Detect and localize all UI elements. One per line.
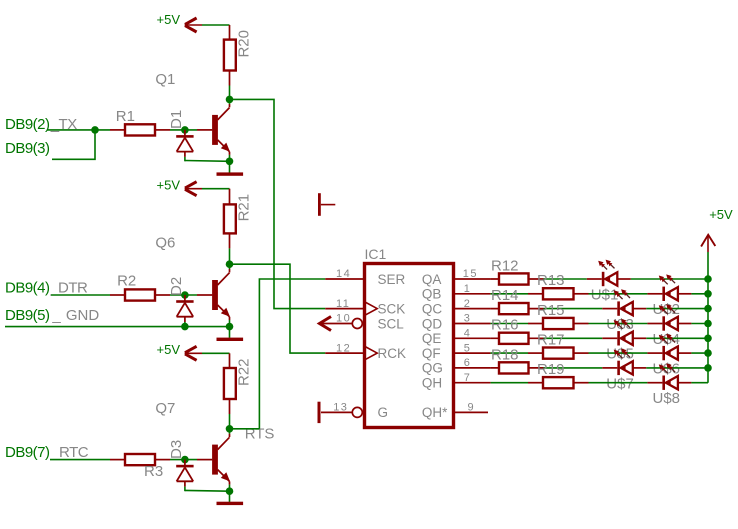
supply +5V arrow (channel Q1) bbox=[185, 18, 197, 24]
wire LED U$8 to +5V bus bbox=[678, 382, 692, 384]
wire R12 to LED bbox=[544, 278, 587, 280]
svg-text:IC1: IC1 bbox=[365, 246, 387, 262]
svg-text:DB9(4): DB9(4) bbox=[5, 280, 50, 297]
ground (emitter Q1) bbox=[229, 161, 231, 172]
wire R19 to LED bbox=[589, 382, 648, 384]
svg-text:12: 12 bbox=[336, 342, 351, 354]
wire R22 to collector node bbox=[229, 414, 231, 429]
node D2 anode junction bbox=[181, 323, 189, 331]
svg-text:SCK: SCK bbox=[378, 301, 406, 316]
svg-text:R17: R17 bbox=[537, 332, 565, 349]
svg-text:D2: D2 bbox=[168, 277, 185, 296]
wire R18 to LED bbox=[544, 367, 603, 369]
wire +5V to R21 bbox=[202, 188, 230, 190]
diode D2 bbox=[184, 295, 186, 301]
LED U$7 bbox=[617, 361, 620, 375]
pin 10 SCL arrow symbol bbox=[320, 317, 332, 331]
supply +5V arrow (channel Q6) bbox=[185, 182, 197, 188]
wire R17 to LED bbox=[589, 352, 648, 354]
node diode junction D1 bbox=[181, 126, 189, 134]
wire LED U$1 to +5V bus bbox=[617, 278, 631, 280]
supply +5V arrow (channel Q7) bbox=[185, 346, 197, 352]
resistor R17 bbox=[528, 352, 543, 354]
node bus junction row 1 bbox=[704, 290, 712, 298]
LED U$4 bbox=[662, 316, 665, 330]
LED U$2 bbox=[662, 287, 665, 301]
svg-text:R2: R2 bbox=[117, 273, 136, 290]
wire R15 to LED bbox=[589, 323, 648, 325]
wire +5V to R20 bbox=[202, 24, 230, 26]
svg-text:R19: R19 bbox=[537, 361, 565, 378]
wire LED U$7 to +5V bus bbox=[633, 367, 647, 369]
wire GND net DB9(5) bbox=[5, 326, 230, 328]
svg-text:14: 14 bbox=[336, 268, 351, 280]
LED U$4 emission arrows bbox=[662, 308, 668, 314]
LED U$5 bbox=[617, 331, 620, 345]
svg-text:9: 9 bbox=[468, 402, 476, 414]
wire LED U$2 to +5V bus bbox=[678, 293, 692, 295]
pin 11 (SCK) bbox=[325, 308, 364, 310]
resistor R13 bbox=[528, 293, 543, 295]
node bus junction row 2 bbox=[704, 305, 712, 313]
pin 9 (QH*) bbox=[454, 411, 489, 413]
wire DB9(7) input bbox=[50, 459, 110, 461]
wire pin to R13 bbox=[491, 293, 528, 295]
svg-text:2: 2 bbox=[464, 298, 472, 310]
resistor R22 bbox=[229, 353, 231, 368]
svg-text:Q7: Q7 bbox=[155, 400, 175, 417]
resistor R19 bbox=[528, 382, 543, 384]
resistor R18 bbox=[491, 367, 544, 369]
LED U$3 bbox=[617, 301, 620, 315]
LED U$8 emission arrows bbox=[662, 367, 668, 373]
wire R16 to LED bbox=[544, 337, 603, 339]
svg-text:U$1: U$1 bbox=[591, 286, 619, 303]
LED U$1 bbox=[602, 272, 605, 286]
node emitter junction Q7 bbox=[226, 487, 234, 495]
pin 3 output (QD) bbox=[454, 323, 491, 325]
node bus junction row 6 bbox=[704, 364, 712, 372]
wire emitter Q7 bbox=[229, 485, 231, 492]
ground (emitter Q7) bbox=[229, 491, 231, 502]
svg-text:3: 3 bbox=[464, 313, 472, 325]
LED U$2 emission arrows bbox=[662, 279, 668, 285]
wire LED U$5 to +5V bus bbox=[633, 337, 647, 339]
ground (emitter Q6) bbox=[229, 327, 231, 338]
svg-text:+5V: +5V bbox=[157, 342, 181, 357]
node diode junction D3 bbox=[181, 456, 189, 464]
wire collector Q7 bbox=[229, 429, 231, 434]
node collector junction Q6 bbox=[226, 260, 234, 268]
wire emitter Q6 bbox=[229, 320, 231, 327]
LED U$5 emission arrows bbox=[617, 323, 623, 329]
svg-text:+5V: +5V bbox=[157, 12, 181, 27]
svg-text:10: 10 bbox=[336, 313, 351, 325]
node emitter junction Q1 bbox=[226, 158, 234, 166]
svg-text:13: 13 bbox=[333, 402, 348, 414]
node diode junction D2 bbox=[181, 291, 189, 299]
wire DB9(3) to node bbox=[52, 130, 95, 159]
pin 4 output (QE) bbox=[454, 337, 491, 339]
wire D3 anode to emitter bbox=[184, 487, 186, 492]
wire pin to R17 bbox=[491, 352, 528, 354]
svg-text:GND: GND bbox=[66, 307, 100, 324]
svg-text:R18: R18 bbox=[491, 346, 519, 363]
svg-text:R20: R20 bbox=[236, 30, 253, 58]
svg-text:_RTC: _RTC bbox=[50, 444, 89, 461]
svg-text:U$4: U$4 bbox=[653, 331, 681, 348]
LED U$1 emission arrows bbox=[601, 264, 607, 270]
resistor R21 bbox=[229, 189, 231, 205]
LED U$8 bbox=[662, 376, 665, 390]
wire DB9(4) input bbox=[51, 294, 110, 296]
wire R2 to base bbox=[170, 294, 197, 296]
wire R13 to LED bbox=[589, 293, 648, 295]
svg-text:R15: R15 bbox=[537, 302, 565, 319]
svg-text:DB9(2): DB9(2) bbox=[5, 116, 50, 133]
wire Q1 collector to SCK bbox=[230, 99, 326, 308]
LED U$6 bbox=[662, 346, 665, 360]
resistor R15 bbox=[528, 323, 543, 325]
svg-text:11: 11 bbox=[336, 298, 350, 310]
wire D1 anode to emitter bbox=[184, 157, 186, 161]
wire LED U$6 to +5V bus bbox=[678, 352, 692, 354]
resistor R20 bbox=[229, 25, 231, 40]
svg-text:QH*: QH* bbox=[422, 405, 448, 420]
wire Q7 collector to SER bbox=[259, 279, 325, 429]
wire R3 to base bbox=[170, 459, 197, 461]
node bus junction row 3 bbox=[704, 320, 712, 328]
svg-text:U$6: U$6 bbox=[653, 361, 681, 378]
resistor R3 bbox=[110, 459, 125, 461]
node emitter junction Q6 bbox=[226, 323, 234, 331]
svg-text:U$3: U$3 bbox=[606, 316, 634, 333]
wire LED U$3 to +5V bus bbox=[633, 308, 647, 310]
svg-text:R1: R1 bbox=[116, 108, 135, 125]
svg-text:Q6: Q6 bbox=[155, 235, 175, 252]
wire R1 to base bbox=[170, 129, 197, 131]
svg-text:QE: QE bbox=[422, 331, 442, 346]
svg-text:4: 4 bbox=[464, 328, 472, 340]
svg-text:QA: QA bbox=[422, 272, 442, 287]
svg-text:QG: QG bbox=[422, 361, 443, 376]
resistor R2 bbox=[110, 294, 125, 296]
pin 7 output (QH) bbox=[454, 382, 491, 384]
wire emitter Q1 bbox=[229, 155, 231, 161]
svg-text:QB: QB bbox=[422, 287, 442, 302]
pin 6 output (QG) bbox=[454, 367, 491, 369]
resistor R16 bbox=[491, 337, 544, 339]
pin 14 (SER) bbox=[325, 278, 364, 280]
svg-text:R13: R13 bbox=[537, 272, 565, 289]
svg-text:R3: R3 bbox=[144, 463, 163, 480]
wire R20 to collector node bbox=[229, 86, 231, 100]
svg-text:U$7: U$7 bbox=[606, 375, 634, 392]
svg-text:+5V: +5V bbox=[709, 207, 733, 222]
resistor R14 bbox=[491, 308, 544, 310]
transistor Q1 bbox=[212, 115, 218, 145]
wire Q6 collector to RCK bbox=[230, 264, 326, 353]
svg-text:1: 1 bbox=[464, 283, 472, 295]
wire collector Q6 bbox=[229, 264, 231, 269]
wire +5V to R22 bbox=[202, 352, 230, 354]
svg-text:R21: R21 bbox=[236, 194, 253, 222]
wire LED U$4 to +5V bus bbox=[678, 323, 692, 325]
node bus junction row 5 bbox=[704, 349, 712, 357]
svg-text:R22: R22 bbox=[236, 358, 253, 386]
svg-text:_DTR: _DTR bbox=[49, 280, 88, 297]
svg-text:R16: R16 bbox=[491, 317, 519, 334]
svg-text:RCK: RCK bbox=[378, 346, 407, 361]
wire +5V bus bbox=[707, 252, 709, 383]
svg-text:15: 15 bbox=[463, 268, 478, 280]
svg-text:U$8: U$8 bbox=[653, 390, 681, 407]
pin 1 output (QB) bbox=[454, 293, 491, 295]
pin 10 (SCL) bbox=[321, 323, 354, 325]
svg-text:+5V: +5V bbox=[157, 177, 181, 192]
svg-text:Q1: Q1 bbox=[155, 71, 175, 88]
svg-text:SCL: SCL bbox=[378, 316, 405, 331]
svg-text:U$5: U$5 bbox=[606, 346, 634, 363]
resistor R12 bbox=[491, 278, 544, 280]
svg-text:DB9(5): DB9(5) bbox=[5, 307, 50, 324]
ground (pin 13 G) bbox=[318, 402, 321, 423]
LED U$6 emission arrows bbox=[662, 338, 668, 344]
transistor Q7 bbox=[212, 445, 218, 475]
LED U$7 emission arrows bbox=[617, 353, 623, 359]
svg-text:DB9(3): DB9(3) bbox=[5, 140, 50, 157]
pin 12 (RCK) bbox=[325, 352, 364, 354]
svg-text:SER: SER bbox=[378, 272, 406, 287]
svg-text:7: 7 bbox=[464, 372, 472, 384]
ground symbol (floating, rotated) bbox=[318, 193, 321, 216]
pin 5 output (QF) bbox=[454, 352, 491, 354]
node bus junction row 0 bbox=[704, 275, 712, 283]
svg-text:QF: QF bbox=[422, 346, 441, 361]
svg-text:QH: QH bbox=[422, 376, 442, 391]
wire Q7 collector to RTS/SER bbox=[230, 428, 260, 430]
node DB9(2)/DB9(3) junction bbox=[91, 126, 99, 134]
svg-text:QC: QC bbox=[422, 301, 443, 316]
wire R14 to LED bbox=[544, 308, 603, 310]
svg-text:DB9(7): DB9(7) bbox=[5, 444, 50, 461]
transistor Q6 bbox=[212, 280, 218, 310]
svg-text:R14: R14 bbox=[491, 287, 519, 304]
pin 15 output (QA) bbox=[454, 278, 491, 280]
wire pin to R15 bbox=[491, 323, 528, 325]
svg-text:R12: R12 bbox=[491, 257, 519, 274]
wire collector Q1 bbox=[229, 99, 231, 104]
svg-text:D3: D3 bbox=[168, 440, 185, 459]
svg-text:U$2: U$2 bbox=[653, 301, 681, 318]
node bus junction row 4 bbox=[704, 335, 712, 343]
svg-text:5: 5 bbox=[464, 342, 472, 354]
svg-text:D1: D1 bbox=[168, 110, 185, 129]
diode D1 bbox=[184, 130, 186, 136]
wire R21 to collector node bbox=[229, 248, 231, 264]
wire DB9(2) input bbox=[47, 129, 110, 131]
svg-text:_: _ bbox=[51, 307, 61, 324]
pin 2 output (QC) bbox=[454, 308, 491, 310]
diode D3 bbox=[184, 460, 186, 466]
wire D2 anode to emitter bbox=[184, 322, 186, 327]
svg-text:6: 6 bbox=[464, 357, 472, 369]
resistor R1 bbox=[110, 129, 125, 131]
op-amp IC1 box (shift register) bbox=[365, 264, 454, 428]
node collector junction Q7 bbox=[226, 425, 234, 433]
LED U$3 emission arrows bbox=[617, 293, 623, 299]
svg-text:QD: QD bbox=[422, 316, 443, 331]
wire pin to R19 bbox=[491, 382, 528, 384]
svg-text:G: G bbox=[378, 405, 389, 420]
supply +5V arrow (LED bus) bbox=[701, 235, 715, 247]
node collector junction Q1 bbox=[226, 96, 234, 104]
pin 13 (G) bbox=[321, 411, 354, 413]
